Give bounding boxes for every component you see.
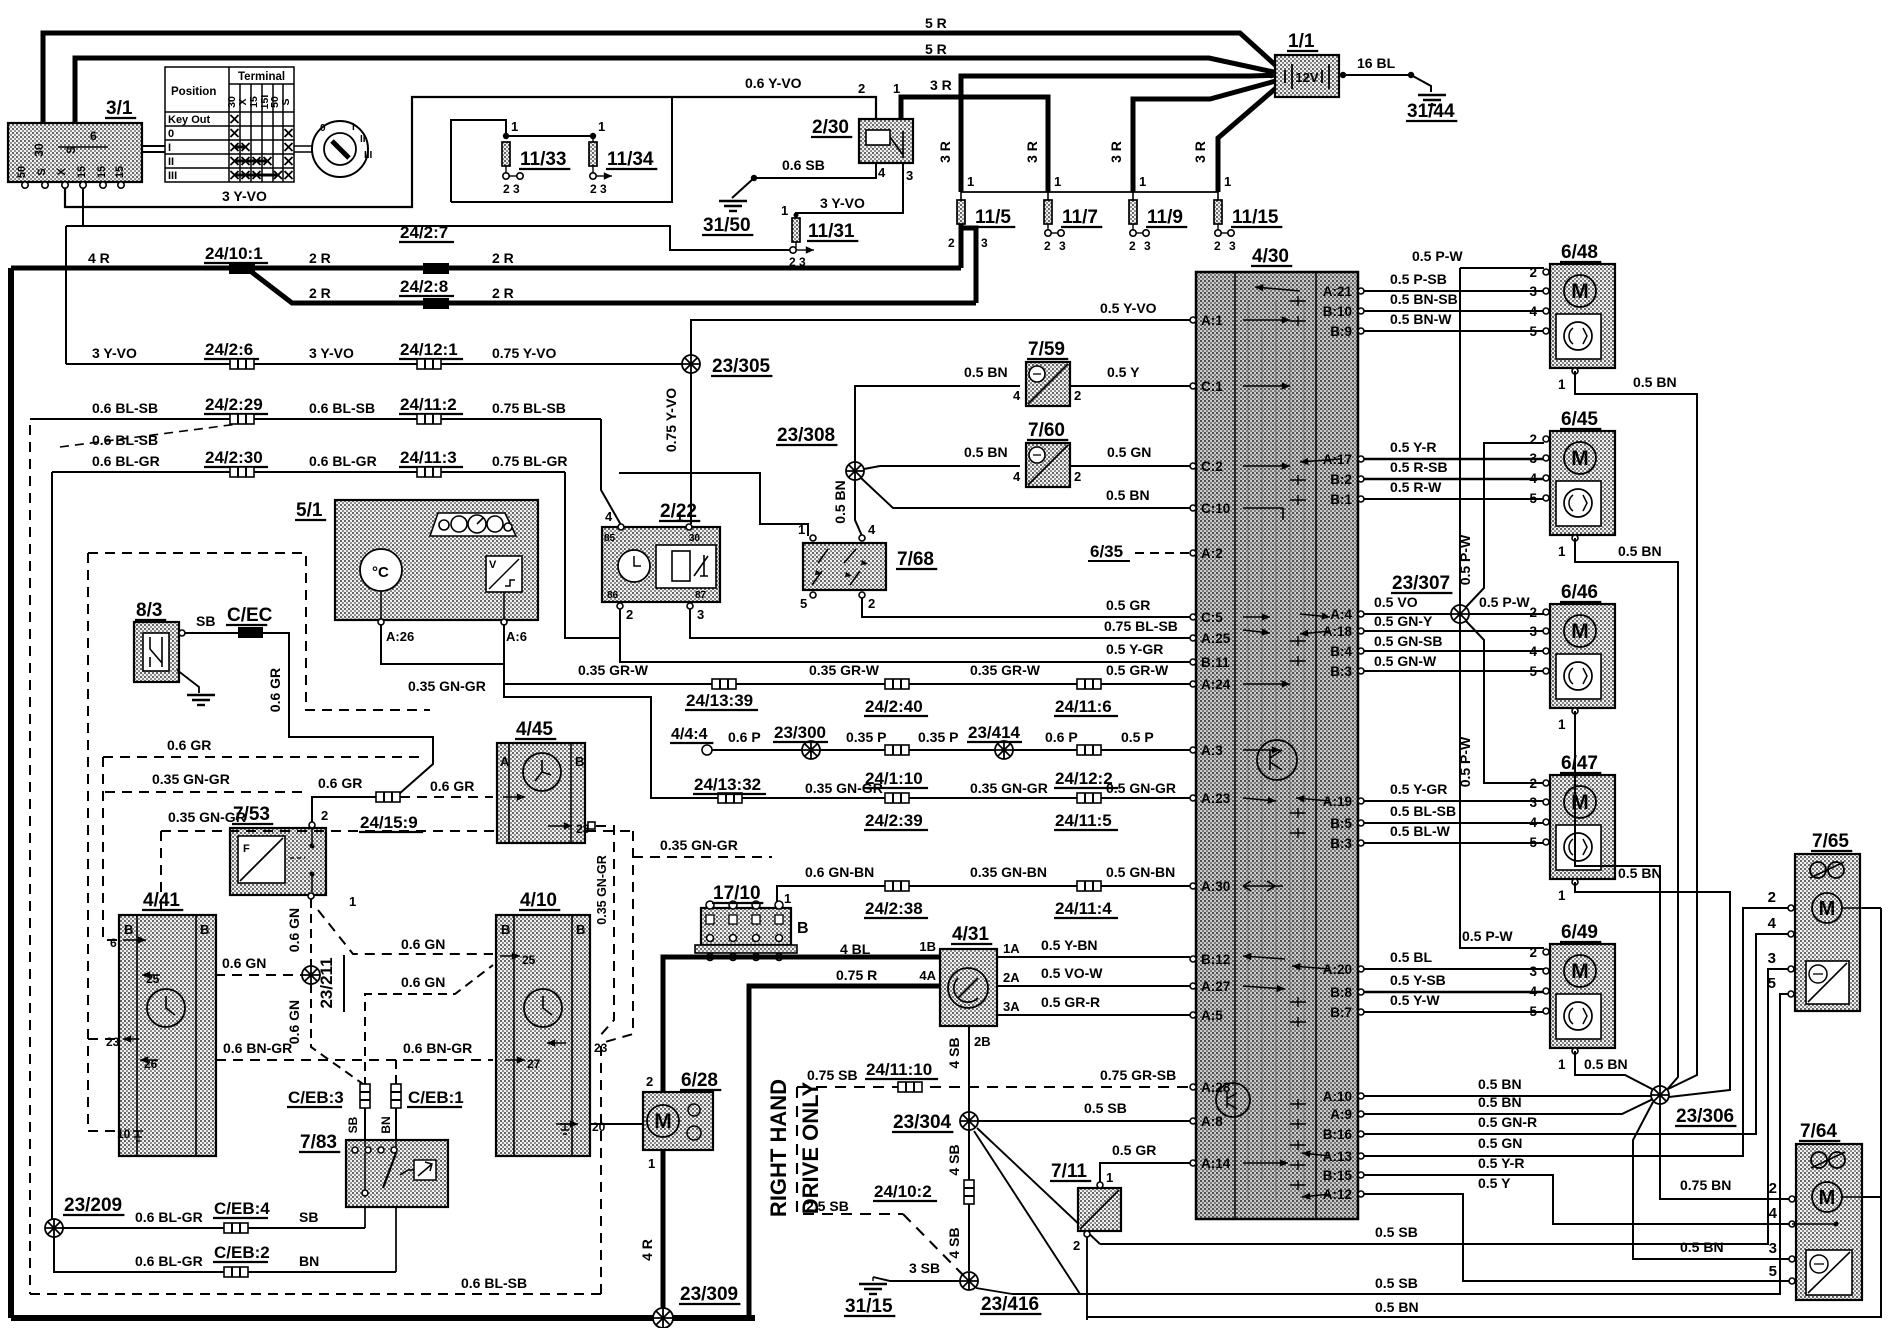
- dashed wire to 4/30 A:2: [1135, 552, 1190, 554]
- wire 0.5 Y-R to 6/45 pin 3: [1364, 458, 1544, 461]
- svg-text:M: M: [1571, 447, 1589, 470]
- svg-text:A:9: A:9: [1330, 1107, 1352, 1122]
- pin A:4 of 4/30 right: [1358, 611, 1364, 617]
- wire 0.5 P-SB to 6/48 pin 3: [1364, 290, 1544, 292]
- voltmeter symbol inside 5/1: [486, 556, 522, 592]
- svg-text:30: 30: [689, 533, 701, 544]
- wire 0.5 P-W branch to 6/45 pin 2: [1466, 443, 1544, 607]
- wire 0.75 BL-SB from 2/22 pin 3 to 4/30 A:25: [690, 609, 1190, 638]
- svg-text:5 R: 5 R: [925, 41, 947, 57]
- svg-text:2: 2: [1214, 239, 1221, 253]
- wire 0.75 R down to bottom rail: [749, 986, 940, 1316]
- svg-text:23: 23: [106, 1035, 120, 1049]
- lamp unit 7/68: [803, 543, 886, 590]
- fuse 11/31: [792, 218, 800, 242]
- svg-text:A:3: A:3: [1201, 743, 1223, 758]
- connector C/EB:3: [360, 1084, 370, 1108]
- svg-text:24/2:6: 24/2:6: [205, 340, 253, 359]
- wire 3 Y-VO from 2/30 pin 3 to fuse 11/31: [796, 163, 903, 218]
- svg-text:DRIVE ONLY: DRIVE ONLY: [798, 1081, 823, 1214]
- svg-text:11/5: 11/5: [975, 207, 1011, 228]
- svg-text:A:26: A:26: [386, 629, 414, 644]
- svg-text:0.35 GR-W: 0.35 GR-W: [809, 662, 880, 678]
- svg-text:A:30: A:30: [1201, 879, 1230, 894]
- svg-text:2 3: 2 3: [590, 182, 607, 196]
- svg-text:24/11:5: 24/11:5: [1055, 811, 1112, 830]
- pin 20 arrow of 4/10: [556, 1123, 578, 1125]
- svg-text:0.35 GR-W: 0.35 GR-W: [970, 662, 1041, 678]
- wire 0.5 GN-Y to 6/46 pin 3: [1364, 630, 1544, 632]
- dashed 0.6 GN from C/EB:3 to 4/10: [365, 965, 493, 1086]
- svg-text:6: 6: [110, 936, 117, 950]
- svg-text:15: 15: [96, 166, 108, 178]
- pin B:2 of 4/30 right: [1358, 476, 1364, 482]
- svg-text:0.75 GR-SB: 0.75 GR-SB: [1100, 1067, 1176, 1083]
- pin 25 arrow of 4/10: [500, 955, 520, 957]
- door lock actuator 6/47: [1550, 775, 1615, 879]
- pin 23 arrow of 4/10: [547, 1042, 566, 1044]
- ground lead of 8/3: [177, 670, 199, 693]
- wire 0.5 BN-SB to 6/48 pin 4: [1364, 310, 1544, 312]
- ground 31/50: [719, 201, 747, 211]
- pin B:12 of 4/30: [1190, 956, 1196, 962]
- wire 0.35 GR-W from A:6 to 4/30 A:24: [504, 624, 1190, 684]
- svg-text:0.5 GR: 0.5 GR: [1106, 597, 1150, 613]
- wire 3R from fuse 11/9 to 1/1: [1133, 79, 1283, 192]
- instrument cluster 5/1: [335, 500, 538, 620]
- svg-text:4 R: 4 R: [639, 1239, 655, 1261]
- clock 4/45: [497, 743, 585, 843]
- splice 23/308: [846, 462, 864, 480]
- wire 0.5 BL-SB to 6/47 pin 4: [1364, 822, 1544, 824]
- svg-text:11/31: 11/31: [808, 221, 855, 242]
- connector 4/4:4: [702, 745, 712, 755]
- svg-text:24/13:39: 24/13:39: [686, 691, 753, 710]
- svg-text:6/35: 6/35: [1090, 542, 1123, 561]
- svg-text:5: 5: [800, 596, 807, 611]
- svg-text:0.5 BN: 0.5 BN: [1478, 1094, 1522, 1110]
- svg-text:M: M: [1571, 280, 1589, 303]
- pin B:15 of 4/30 right: [1358, 1172, 1364, 1178]
- svg-text:4: 4: [1529, 644, 1537, 659]
- svg-text:3 R: 3 R: [1192, 141, 1208, 163]
- svg-text:11/34: 11/34: [607, 149, 654, 170]
- svg-text:3: 3: [1529, 964, 1537, 979]
- svg-text:0.6 GN: 0.6 GN: [286, 908, 302, 952]
- svg-text:7/83: 7/83: [300, 1132, 337, 1153]
- dashed 2.5 SB to 23/416: [903, 1214, 963, 1275]
- connector 24/11:10: [898, 1082, 922, 1092]
- svg-text:0.35 GN-GR: 0.35 GN-GR: [970, 780, 1048, 796]
- svg-text:24/15:9: 24/15:9: [360, 813, 418, 832]
- wire 0.5 SB row to 7/65 pin 3: [1100, 969, 1789, 1244]
- svg-text:0: 0: [168, 128, 174, 140]
- splice 23/304: [960, 1112, 978, 1130]
- svg-text:0.5 Y: 0.5 Y: [1478, 1175, 1511, 1191]
- svg-text:1: 1: [1558, 888, 1566, 903]
- svg-text:0.5 GN: 0.5 GN: [1107, 444, 1151, 460]
- svg-text:0.75 BN: 0.75 BN: [1680, 1177, 1731, 1193]
- svg-text:°C: °C: [372, 564, 389, 581]
- blower unit 7/65: [1795, 854, 1860, 1011]
- wire 0.5 Y-GR from 2/22 pin 2 to 4/30 B:11: [620, 609, 1190, 662]
- svg-text:0.5 P-W: 0.5 P-W: [1462, 928, 1513, 944]
- svg-text:4: 4: [878, 165, 886, 180]
- battery feed connector 1/1: [1275, 55, 1339, 97]
- svg-text:B:10: B:10: [1323, 304, 1352, 319]
- svg-text:1: 1: [1558, 717, 1566, 732]
- pin 25 arrow of 4/41: [142, 974, 160, 976]
- stub 7/64 M to rail: [1862, 1196, 1881, 1198]
- door lock actuator 6/45: [1550, 431, 1615, 535]
- svg-text:A:1: A:1: [1201, 313, 1223, 328]
- svg-text:0.5 GN-W: 0.5 GN-W: [1374, 653, 1437, 669]
- connector 24/11:6: [1077, 679, 1101, 689]
- svg-text:2 3: 2 3: [503, 182, 520, 196]
- svg-text:B: B: [575, 754, 584, 769]
- svg-text:C:2: C:2: [1201, 459, 1223, 474]
- relay 2/22: [602, 527, 720, 602]
- svg-text:C/EB:2: C/EB:2: [214, 1243, 270, 1262]
- wire 0.6 GN-BN from 17/10 to 4/30 A:30: [777, 886, 1190, 905]
- svg-text:0.75 R: 0.75 R: [836, 967, 877, 983]
- svg-text:X: X: [56, 168, 68, 176]
- svg-text:24/2:7: 24/2:7: [400, 223, 448, 242]
- svg-text:0.6 SB: 0.6 SB: [782, 157, 825, 173]
- dashed from 4/45 pin 23 down to 4/10: [596, 826, 614, 1038]
- svg-text:C/EB:3: C/EB:3: [288, 1088, 344, 1107]
- svg-text:24/1:10: 24/1:10: [865, 769, 923, 788]
- svg-text:0.6 BL-GR: 0.6 BL-GR: [309, 453, 377, 469]
- svg-text:BN: BN: [299, 1253, 319, 1269]
- svg-text:7/59: 7/59: [1028, 339, 1065, 360]
- table Position/Terminal of ignition switch: [165, 67, 294, 182]
- svg-text:5: 5: [1529, 1004, 1537, 1019]
- svg-text:B:11: B:11: [1201, 655, 1230, 670]
- svg-text:B: B: [200, 922, 209, 937]
- svg-text:0.5 BL-W: 0.5 BL-W: [1390, 823, 1451, 839]
- svg-text:4 R: 4 R: [88, 250, 110, 266]
- dashed 0.6 BN-GR from 4/41 pin 26 to 4/10 pin 27: [216, 1059, 493, 1061]
- svg-text:0.5 GN-BN: 0.5 GN-BN: [1106, 864, 1175, 880]
- wire 0.5 P-W branch to 6/47 pin 2: [1466, 621, 1544, 783]
- wire 0.5 Y-VO to 4/30 A:1: [691, 320, 1190, 355]
- svg-text:2: 2: [646, 1074, 653, 1089]
- svg-text:2/30: 2/30: [812, 117, 849, 138]
- ground at 8/3: [187, 695, 215, 705]
- pin A:12 of 4/30 right: [1358, 1191, 1364, 1197]
- svg-text:4 SB: 4 SB: [946, 1037, 962, 1068]
- svg-text:24/10:2: 24/10:2: [874, 1182, 932, 1201]
- connector C/EB:2: [224, 1267, 248, 1277]
- svg-text:17/10: 17/10: [713, 883, 761, 904]
- wire 3R from fuse 11/15 to 1/1: [1218, 82, 1283, 192]
- svg-text:0.5 P-W: 0.5 P-W: [1479, 594, 1530, 610]
- svg-text:0.5 BN: 0.5 BN: [1106, 487, 1150, 503]
- pin 23 arrow of 4/45: [548, 825, 572, 827]
- svg-text:M: M: [1819, 898, 1836, 920]
- svg-text:0.75 Y-VO: 0.75 Y-VO: [663, 388, 679, 452]
- dashed 0.6 GN from 7/53 pin 1 to 4/10 pin 25: [318, 910, 493, 954]
- wire 0.5 GN-R from B:16 to 7/65 pin 4: [1364, 934, 1789, 1134]
- pin C:5 of 4/30: [1190, 614, 1196, 620]
- svg-text:4 SB: 4 SB: [946, 1144, 962, 1175]
- wire from 7/11 pin 2 down to BN rail: [1086, 1237, 1088, 1320]
- svg-text:6/28: 6/28: [681, 1070, 718, 1091]
- splice 23/211: [302, 966, 320, 984]
- svg-text:A:4: A:4: [1330, 607, 1352, 622]
- splice 23/307: [1451, 605, 1469, 623]
- svg-text:2: 2: [1529, 945, 1537, 960]
- connector 24/1:10: [885, 745, 909, 755]
- svg-text:B:2: B:2: [1330, 472, 1352, 487]
- svg-text:11/33: 11/33: [520, 149, 567, 170]
- svg-text:C/EB:1: C/EB:1: [408, 1088, 464, 1107]
- svg-text:2: 2: [321, 808, 328, 823]
- connector 24/11:4: [1077, 881, 1101, 891]
- svg-text:0.5 BN: 0.5 BN: [832, 480, 848, 524]
- svg-text:0.5 BN: 0.5 BN: [1618, 543, 1662, 559]
- wire from 4/10 pin 20 to 4R rail: [590, 1123, 656, 1125]
- dashed stub to 4/41 pin 23: [88, 1038, 117, 1040]
- svg-text:0.5 Y-R: 0.5 Y-R: [1390, 439, 1436, 455]
- pin arrow into 4/45: [503, 796, 525, 798]
- svg-text:Terminal: Terminal: [238, 71, 285, 83]
- svg-text:5: 5: [1768, 975, 1776, 992]
- svg-text:0.35 GR-W: 0.35 GR-W: [578, 662, 649, 678]
- wire 0.75 BN from 23/306 to 7/64 pin 2: [1660, 1104, 1790, 1199]
- svg-text:A:8: A:8: [1201, 1114, 1223, 1129]
- svg-text:3 Y-VO: 3 Y-VO: [309, 345, 354, 361]
- pin B:10 of 4/30 right: [1358, 308, 1364, 314]
- svg-text:23/307: 23/307: [1392, 573, 1450, 594]
- svg-text:3: 3: [1769, 1240, 1777, 1257]
- wire 0.5 BN from A:10 to 23/306: [1364, 1095, 1651, 1097]
- svg-text:0.75 Y-VO: 0.75 Y-VO: [492, 345, 556, 361]
- svg-text:24/11:6: 24/11:6: [1055, 697, 1112, 716]
- svg-text:5: 5: [1529, 664, 1537, 679]
- svg-text:A:28: A:28: [1201, 1080, 1231, 1095]
- connector C/EB:4: [224, 1223, 248, 1233]
- svg-text:0.6 GN: 0.6 GN: [286, 1000, 302, 1044]
- pin C:2 of 4/30: [1190, 463, 1196, 469]
- wire SB from 8/3 to C/EC: [185, 632, 238, 634]
- wire 0.5 BN from 6/47 pin 1 to 23/306: [1575, 882, 1730, 1097]
- svg-text:0.5 BN: 0.5 BN: [1478, 1076, 1522, 1092]
- svg-text:B:8: B:8: [1330, 985, 1352, 1000]
- svg-text:23/306: 23/306: [1676, 1106, 1734, 1127]
- svg-text:0.35 GN-BN: 0.35 GN-BN: [970, 864, 1047, 880]
- svg-text:24/12:1: 24/12:1: [400, 340, 458, 359]
- svg-text:4/4:4: 4/4:4: [671, 726, 708, 743]
- svg-text:A:6: A:6: [506, 629, 527, 644]
- svg-text:SB: SB: [346, 1116, 360, 1133]
- svg-text:24/2:39: 24/2:39: [865, 811, 923, 830]
- svg-text:0.6 GR: 0.6 GR: [167, 737, 211, 753]
- svg-text:C:10: C:10: [1201, 501, 1230, 516]
- svg-text:0.6 Y-VO: 0.6 Y-VO: [745, 75, 802, 91]
- wire 3R from fuse 11/5 to 1/1: [961, 75, 1283, 192]
- svg-text:0.5 BL: 0.5 BL: [1390, 949, 1432, 965]
- dashed rail up to 4/10: [600, 1042, 602, 1294]
- svg-text:4: 4: [1769, 1205, 1778, 1222]
- svg-text:0.6 BL-GR: 0.6 BL-GR: [92, 453, 160, 469]
- svg-text:0.6 GN-BN: 0.6 GN-BN: [805, 864, 874, 880]
- pin A:19 of 4/30 right: [1358, 798, 1364, 804]
- wire 4 BL from 4/31 to 6/28: [663, 957, 940, 1092]
- svg-text:23/308: 23/308: [777, 425, 835, 446]
- svg-text:24/2:30: 24/2:30: [205, 448, 263, 467]
- svg-text:3: 3: [1768, 950, 1776, 967]
- table X marks: [231, 115, 239, 123]
- svg-text:1: 1: [676, 509, 683, 524]
- svg-text:23/211: 23/211: [317, 957, 336, 1008]
- svg-text:31/15: 31/15: [845, 1296, 893, 1317]
- door lock actuator 6/48: [1550, 264, 1615, 368]
- wire 0.5 Y from A:12 to 7/64 pin 5: [1364, 1194, 1790, 1281]
- svg-text:1: 1: [798, 522, 805, 537]
- svg-text:1: 1: [1224, 174, 1231, 189]
- mirror motor 6/28: [643, 1092, 713, 1150]
- svg-text:2: 2: [858, 81, 865, 96]
- wire 0.5 R-SB to 6/45 pin 4: [1364, 478, 1544, 481]
- svg-text:27: 27: [527, 1057, 541, 1071]
- pin B:11 of 4/30: [1190, 659, 1196, 665]
- splice 23/305: [682, 355, 700, 373]
- dashed 0.35 GN-GR stub row: [105, 791, 309, 793]
- dashed 0.6 GN down to C/EB:3: [311, 984, 363, 1084]
- transistor circle inside 4/30: [1257, 740, 1297, 780]
- svg-text:1: 1: [648, 1156, 655, 1171]
- svg-text:0.5 Y: 0.5 Y: [1107, 364, 1140, 380]
- svg-text:SB: SB: [299, 1209, 318, 1225]
- wire 0.5 SB row to 7/65 pin 5: [1012, 994, 1789, 1294]
- dashed 0.6 GN to 4/41 pin 25: [215, 974, 302, 976]
- svg-text:3 R: 3 R: [1108, 141, 1124, 163]
- svg-text:0.5 GR: 0.5 GR: [1112, 1142, 1156, 1158]
- svg-text:M: M: [1571, 620, 1589, 643]
- svg-text:1: 1: [781, 203, 788, 218]
- svg-text:4: 4: [1529, 471, 1537, 486]
- svg-text:RIGHT HAND: RIGHT HAND: [766, 1079, 791, 1217]
- pin B:16 of 4/30 right: [1358, 1131, 1364, 1137]
- svg-text:III: III: [168, 170, 177, 182]
- wire 0.6 BL-SB row: [30, 418, 601, 420]
- svg-text:4: 4: [1013, 469, 1021, 484]
- svg-text:2: 2: [626, 607, 633, 622]
- svg-text:4: 4: [1013, 388, 1021, 403]
- link 3/1 to table: [142, 146, 165, 152]
- svg-text:5/1: 5/1: [296, 500, 323, 521]
- svg-text:0: 0: [320, 123, 326, 134]
- svg-text:0.6 P: 0.6 P: [728, 729, 761, 745]
- wire 0.5 BN to 7/60 pin 4: [864, 466, 1020, 469]
- svg-text:3 R: 3 R: [937, 141, 953, 163]
- svg-text:1/1: 1/1: [1288, 31, 1315, 52]
- pin B:3 of 4/30 right: [1358, 840, 1364, 846]
- svg-text:3 Y-VO: 3 Y-VO: [820, 195, 865, 211]
- svg-text:3A: 3A: [1003, 999, 1020, 1014]
- svg-text:B:16: B:16: [1323, 1127, 1353, 1142]
- wire 4 SB from 4/31 2B to 23/416: [968, 1026, 970, 1271]
- gauge panel inside 5/1: [430, 513, 516, 536]
- svg-text:16 BL: 16 BL: [1357, 55, 1396, 71]
- left thick border wire: [8, 268, 14, 1318]
- svg-text:I: I: [352, 122, 355, 133]
- svg-text:5 R: 5 R: [925, 15, 947, 31]
- svg-text:6/47: 6/47: [1561, 753, 1598, 774]
- svg-text:3 SB: 3 SB: [909, 1260, 940, 1276]
- svg-text:2: 2: [868, 596, 875, 611]
- svg-text:3: 3: [1529, 795, 1537, 810]
- svg-text:1: 1: [1558, 544, 1566, 559]
- svg-text:24/11:3: 24/11:3: [400, 448, 457, 467]
- wire 3 SB from 31/15 to 23/416: [873, 1277, 960, 1281]
- wire 0.5 P-W to 6/48 pin 2: [1460, 267, 1544, 269]
- svg-text:7/60: 7/60: [1028, 420, 1065, 441]
- svg-text:II: II: [168, 156, 174, 168]
- connector 24/13:32: [718, 793, 742, 803]
- svg-text:20: 20: [592, 1120, 606, 1134]
- pin A:30 of 4/30: [1190, 883, 1196, 889]
- svg-text:B: B: [797, 920, 809, 937]
- relay 7/53: [230, 828, 326, 895]
- svg-text:4/10: 4/10: [520, 890, 557, 911]
- stub 7/65 M to rail: [1862, 907, 1881, 909]
- svg-text:3/1: 3/1: [106, 98, 133, 119]
- svg-text:23/416: 23/416: [981, 1294, 1039, 1315]
- svg-text:III: III: [364, 150, 373, 161]
- ignition switch 3/1: [8, 123, 142, 182]
- wire 0.6 BL-GR / SB row to 7/83: [63, 1227, 365, 1229]
- svg-text:B:3: B:3: [1330, 836, 1352, 851]
- diode 7/59: [1026, 362, 1070, 406]
- pin 27 arrow of 4/10: [505, 1059, 525, 1061]
- svg-text:1A: 1A: [1003, 941, 1020, 956]
- svg-text:3: 3: [906, 168, 913, 183]
- wire to ground 31/44: [1411, 75, 1431, 92]
- pin 26 arrow of 4/41: [140, 1059, 158, 1061]
- pin A:5 of 4/30: [1190, 1012, 1196, 1018]
- svg-text:2: 2: [1768, 889, 1776, 906]
- svg-text:0.35 P: 0.35 P: [918, 729, 958, 745]
- wire 0.6 BL-GR row: [52, 471, 565, 473]
- svg-text:10: 10: [117, 1127, 131, 1141]
- svg-text:11/15: 11/15: [1232, 207, 1279, 228]
- fuse 11/34: [589, 142, 597, 166]
- svg-text:0.5 Y-BN: 0.5 Y-BN: [1041, 937, 1098, 953]
- wire 0.5 Y-W to 6/49 pin 5: [1364, 1011, 1544, 1013]
- svg-text:0.5 Y-GR: 0.5 Y-GR: [1390, 781, 1447, 797]
- wire 2R branch to 24/2:8: [249, 270, 976, 303]
- wire 0.6 BL-GR rail down to 23/209: [51, 472, 53, 1228]
- svg-text:0.6 GR: 0.6 GR: [318, 775, 362, 791]
- svg-text:B:5: B:5: [1330, 816, 1352, 831]
- svg-text:C:5: C:5: [1201, 610, 1223, 625]
- wire 0.5 VO-W to 4/30 A:27: [997, 985, 1190, 987]
- svg-text:4: 4: [1768, 915, 1777, 932]
- svg-text:2 R: 2 R: [309, 285, 331, 301]
- svg-text:A:24: A:24: [1201, 677, 1231, 692]
- svg-text:6/48: 6/48: [1561, 242, 1598, 263]
- svg-text:0.5 VO-W: 0.5 VO-W: [1041, 965, 1103, 981]
- svg-text:3: 3: [1529, 451, 1537, 466]
- svg-text:2: 2: [1073, 1238, 1080, 1253]
- svg-text:11/9: 11/9: [1147, 207, 1183, 228]
- svg-text:2: 2: [1074, 469, 1081, 484]
- splice 23/300: [802, 741, 820, 759]
- svg-text:1: 1: [1558, 1057, 1566, 1072]
